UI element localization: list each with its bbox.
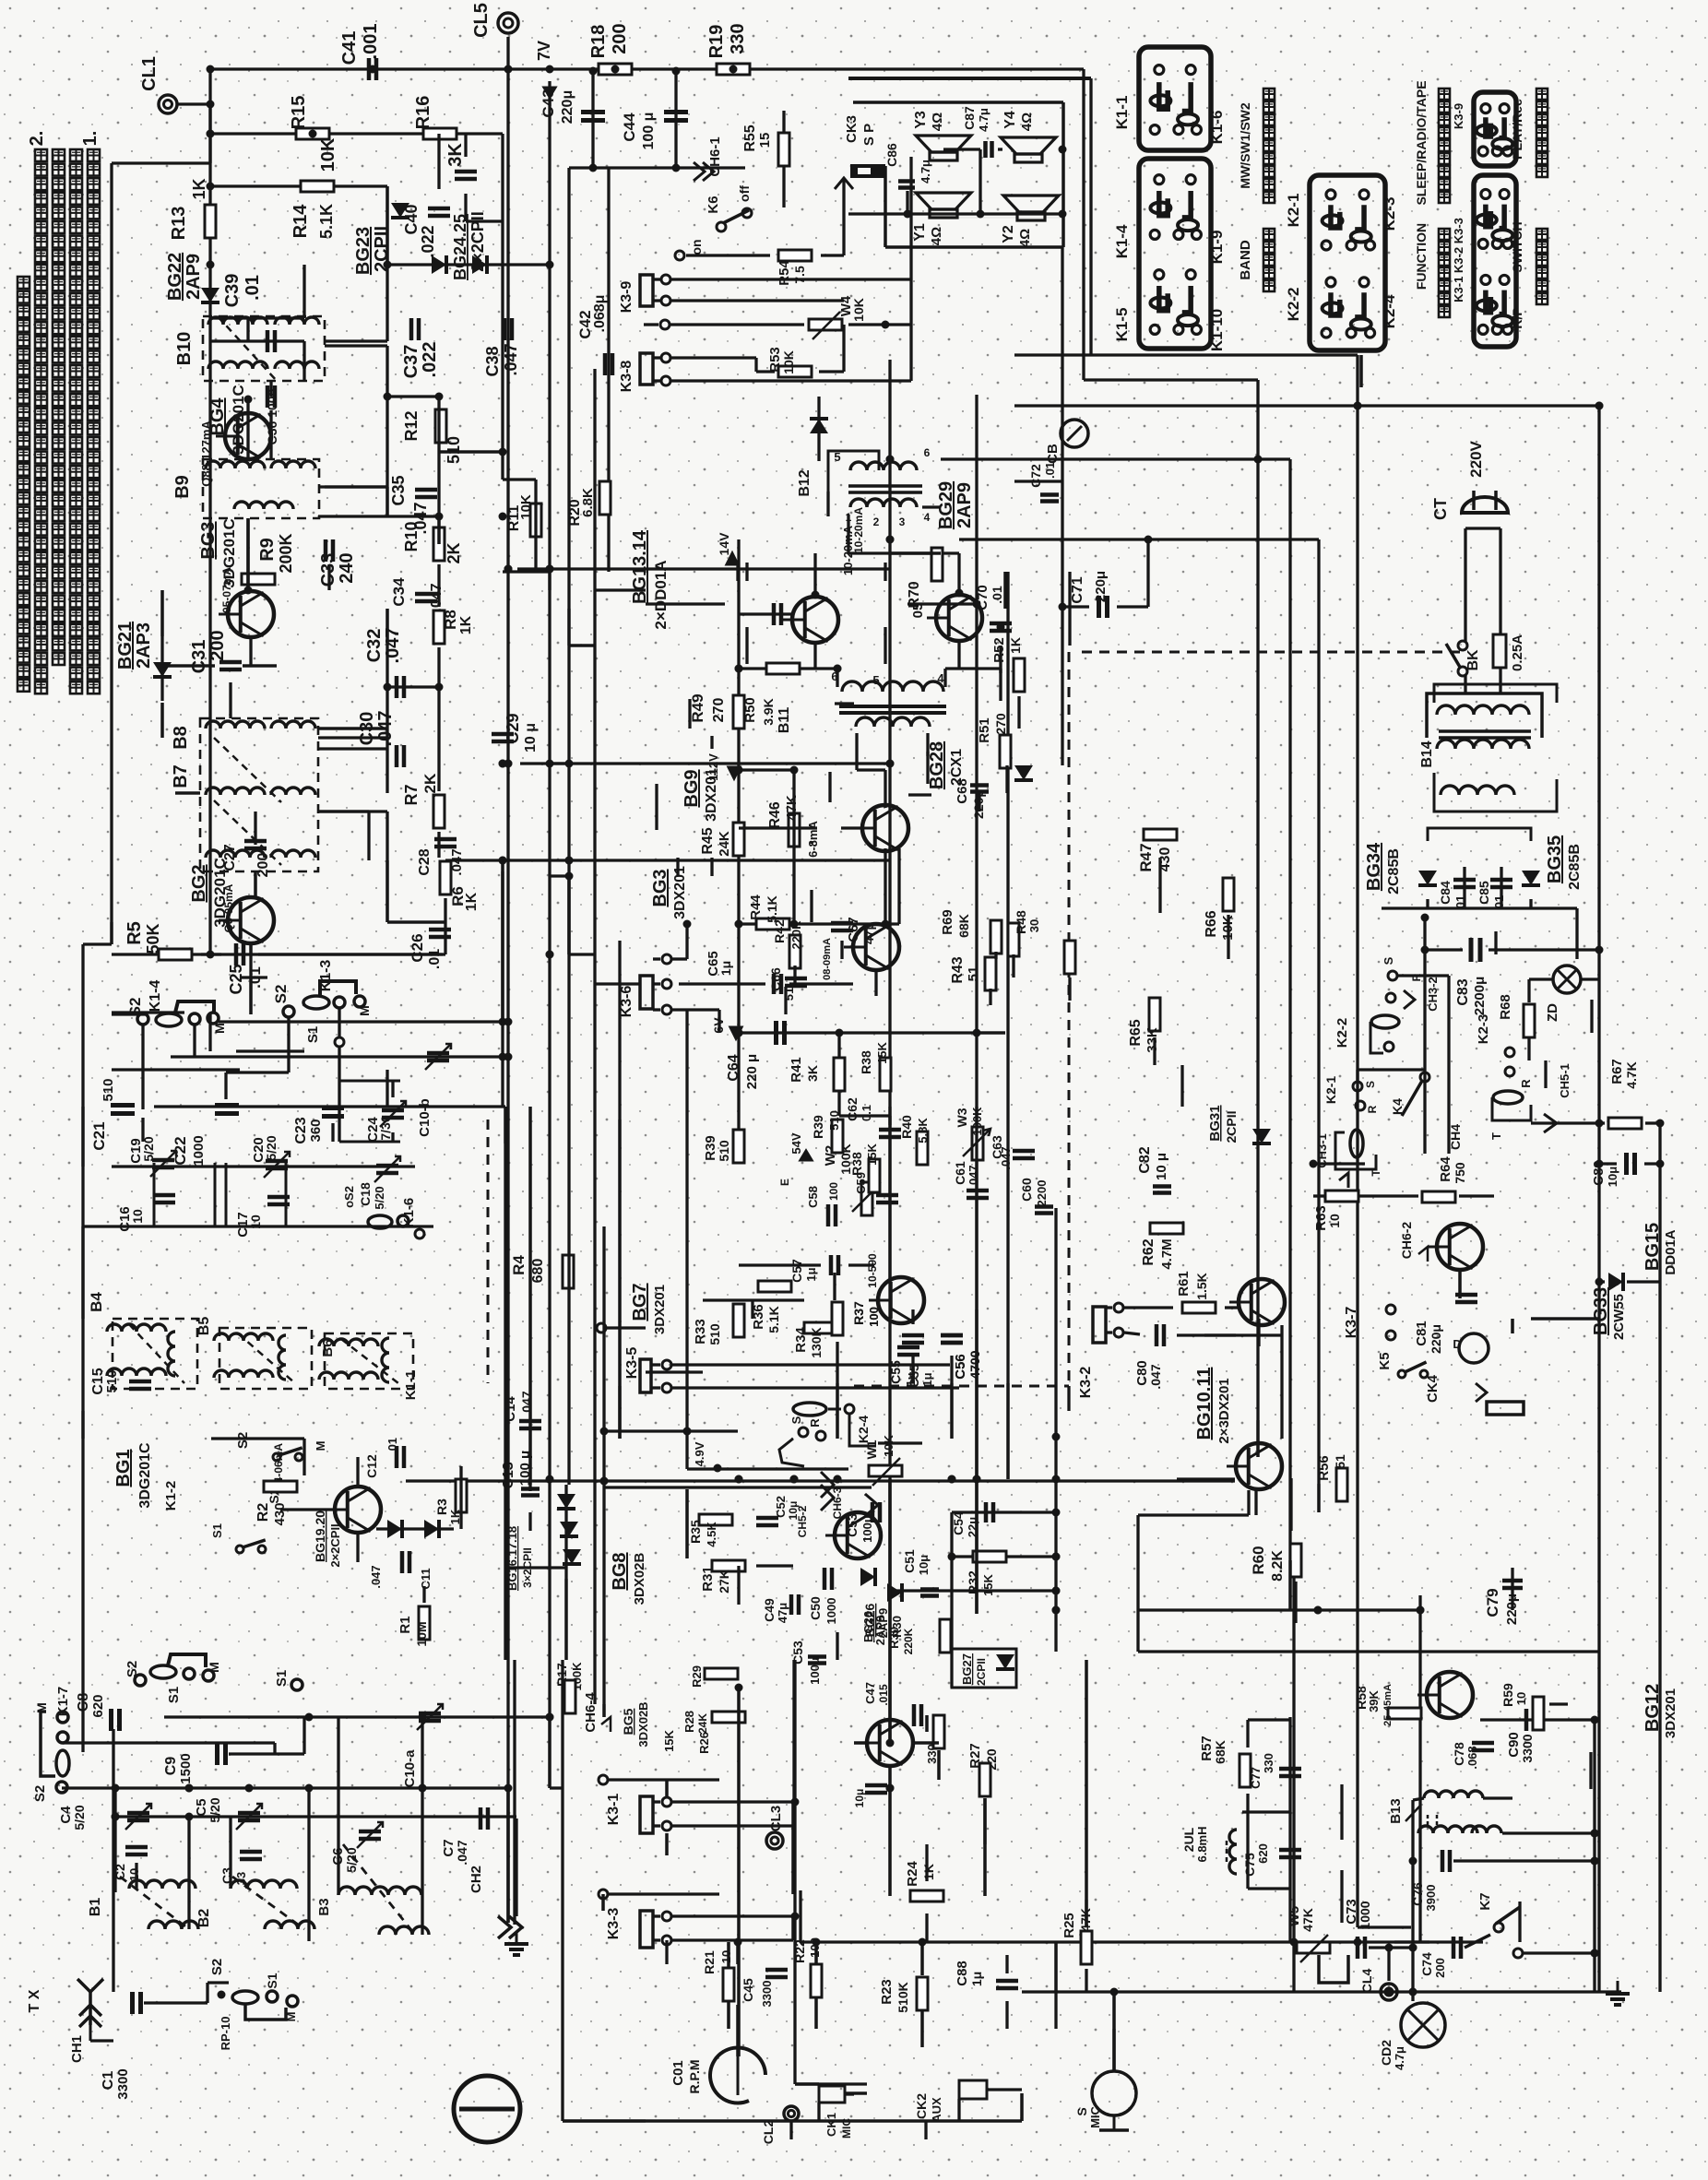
svg-text:14V: 14V <box>717 532 731 556</box>
svg-text:B12: B12 <box>797 469 812 496</box>
svg-text:C64: C64 <box>726 1054 741 1081</box>
svg-text:47K: 47K <box>1300 1908 1315 1932</box>
svg-text:K1-9: K1-9 <box>1208 231 1226 265</box>
svg-text:510: 510 <box>717 1140 731 1162</box>
svg-text:4: 4 <box>924 511 931 524</box>
svg-text:100: 100 <box>867 1307 881 1327</box>
svg-text:5/20: 5/20 <box>72 1805 87 1830</box>
svg-text:R7: R7 <box>402 784 421 805</box>
svg-text:270: 270 <box>711 698 727 723</box>
svg-text:BG24.25: BG24.25 <box>451 214 469 280</box>
svg-text:CB: CB <box>1045 444 1061 464</box>
svg-text:6: 6 <box>924 446 931 459</box>
svg-text:K2-4: K2-4 <box>1381 294 1398 328</box>
svg-text:S2: S2 <box>235 1432 251 1449</box>
svg-text:10K: 10K <box>851 298 866 322</box>
svg-text:47μ: 47μ <box>776 1603 789 1623</box>
svg-text:2AP9: 2AP9 <box>184 254 204 300</box>
svg-text:R23: R23 <box>879 1979 895 2005</box>
svg-text:S: S <box>1074 2107 1089 2115</box>
svg-text:R26: R26 <box>697 1732 711 1754</box>
svg-text:1.5K: 1.5K <box>1194 1273 1209 1300</box>
svg-text:BG22: BG22 <box>165 253 185 301</box>
svg-text:4.9V: 4.9V <box>693 1441 706 1466</box>
svg-text:C77: C77 <box>1249 1767 1263 1789</box>
svg-text:C52: C52 <box>774 1496 788 1518</box>
svg-text:220 μ: 220 μ <box>744 1054 760 1089</box>
svg-text:68K: 68K <box>1213 1740 1228 1764</box>
svg-text:3: 3 <box>899 515 906 528</box>
svg-text:24K: 24K <box>717 831 732 857</box>
svg-text:54V: 54V <box>789 1132 803 1154</box>
svg-text:R34: R34 <box>793 1327 809 1353</box>
svg-text:100 μ: 100 μ <box>641 113 657 150</box>
svg-text:6-8mA: 6-8mA <box>806 821 820 858</box>
svg-text:R69: R69 <box>940 909 955 935</box>
svg-text:K3-7: K3-7 <box>1344 1307 1359 1339</box>
svg-text:CH4: CH4 <box>1448 1124 1463 1150</box>
svg-text:2CW55: 2CW55 <box>1611 1294 1627 1340</box>
svg-text:4.7μ: 4.7μ <box>1393 2046 1406 2070</box>
svg-text:C87: C87 <box>962 106 977 130</box>
svg-text:K2-3: K2-3 <box>1476 1014 1491 1045</box>
svg-text:1500: 1500 <box>178 1753 194 1783</box>
svg-text:BAND: BAND <box>1238 240 1253 279</box>
svg-text:MW/SW1/SW2: MW/SW1/SW2 <box>1238 102 1252 189</box>
svg-text:BG15: BG15 <box>1643 1223 1663 1271</box>
svg-text:1K: 1K <box>190 178 208 199</box>
svg-text:C28: C28 <box>417 848 433 875</box>
svg-text:01: 01 <box>1492 895 1506 908</box>
svg-text:510: 510 <box>101 1078 116 1101</box>
svg-text:CL3: CL3 <box>768 1806 784 1831</box>
svg-text:CH2: CH2 <box>469 1866 484 1893</box>
svg-text:.001: .001 <box>361 24 381 60</box>
svg-text:R38: R38 <box>859 1050 873 1074</box>
svg-text:10 μ: 10 μ <box>1154 1153 1169 1180</box>
svg-text:C01: C01 <box>670 2060 686 2086</box>
svg-text:4.7μ: 4.7μ <box>919 160 932 184</box>
svg-text:R31: R31 <box>700 1566 716 1592</box>
svg-text:R35: R35 <box>688 1520 703 1544</box>
svg-text:25-45mA: 25-45mA <box>1382 1684 1394 1726</box>
svg-text:68K: 68K <box>956 914 971 938</box>
svg-text:.047: .047 <box>1148 1364 1163 1389</box>
svg-text:C8: C8 <box>76 1693 91 1712</box>
svg-text:R14: R14 <box>291 204 311 239</box>
svg-text:47μ: 47μ <box>861 922 876 944</box>
svg-text:R54: R54 <box>777 260 792 286</box>
svg-text:C38: C38 <box>483 346 502 376</box>
svg-text:B2: B2 <box>196 1909 212 1928</box>
svg-text:R62: R62 <box>1141 1238 1156 1265</box>
svg-text:.047: .047 <box>369 1565 383 1588</box>
svg-text:BG28: BG28 <box>927 741 947 789</box>
svg-text:4Ω: 4Ω <box>930 113 945 131</box>
svg-text:6.8K: 6.8K <box>580 488 596 517</box>
svg-text:R29: R29 <box>690 1665 704 1688</box>
svg-text:B14: B14 <box>1419 740 1435 767</box>
svg-text:.01: .01 <box>385 1438 399 1454</box>
svg-text:B9: B9 <box>172 475 193 499</box>
svg-text:C1: C1 <box>101 2071 116 2091</box>
svg-text:2AP9: 2AP9 <box>873 1616 887 1646</box>
svg-text:4.7μ: 4.7μ <box>977 108 990 132</box>
svg-text:50K: 50K <box>144 923 162 954</box>
svg-text:C9: C9 <box>163 1757 179 1776</box>
svg-text:CH6-1: CH6-1 <box>707 136 723 176</box>
svg-text:C82: C82 <box>1137 1146 1153 1173</box>
svg-text:C10-b: C10-b <box>417 1098 433 1137</box>
svg-text:R12: R12 <box>402 410 421 441</box>
svg-text:C22: C22 <box>172 1136 189 1165</box>
svg-text:K3-2: K3-2 <box>1078 1367 1094 1399</box>
svg-text:C60: C60 <box>1019 1178 1034 1202</box>
svg-text:C83: C83 <box>1455 978 1471 1005</box>
svg-text:15: 15 <box>757 133 773 148</box>
svg-text:R51: R51 <box>977 717 992 743</box>
svg-text:C86: C86 <box>884 143 899 167</box>
svg-text:C29: C29 <box>504 713 522 743</box>
svg-text:R18: R18 <box>588 25 609 59</box>
svg-text:51: 51 <box>966 966 981 982</box>
svg-text:S: S <box>1382 956 1395 965</box>
svg-text:oS2: oS2 <box>342 1186 356 1208</box>
svg-text:5.1K: 5.1K <box>765 895 779 923</box>
svg-text:10-20mA: 10-20mA <box>852 507 865 553</box>
svg-text:3DX201: 3DX201 <box>1663 1688 1678 1738</box>
svg-text:05-07mA: 05-07mA <box>220 567 233 613</box>
svg-text:S2: S2 <box>32 1785 48 1802</box>
svg-text:B4: B4 <box>88 1292 105 1312</box>
svg-text:C49: C49 <box>762 1598 777 1622</box>
svg-text:M: M <box>207 1662 221 1673</box>
svg-text:CL2: CL2 <box>761 2120 776 2145</box>
svg-text:K2-1: K2-1 <box>1285 194 1302 228</box>
svg-text:R42: R42 <box>772 919 787 943</box>
svg-text:2: 2 <box>873 515 880 528</box>
svg-text:3300: 3300 <box>760 1981 774 2008</box>
svg-text:C62: C62 <box>845 1097 860 1121</box>
svg-text:K3-5: K3-5 <box>624 1347 640 1380</box>
svg-text:510: 510 <box>827 1110 841 1131</box>
svg-text:R25: R25 <box>1062 1913 1077 1938</box>
svg-text:K3-1: K3-1 <box>606 1794 622 1826</box>
svg-text:BG9: BG9 <box>682 769 702 807</box>
svg-text:10 μ: 10 μ <box>523 723 539 752</box>
svg-text:2200: 2200 <box>1035 1180 1049 1207</box>
svg-text:1K: 1K <box>464 892 480 911</box>
svg-text:K3-9: K3-9 <box>619 281 635 314</box>
svg-text:5/20: 5/20 <box>208 1797 222 1822</box>
svg-text:K1-4: K1-4 <box>1113 224 1131 258</box>
svg-text:3DG201C: 3DG201C <box>137 1442 153 1509</box>
svg-text:K1-10: K1-10 <box>1208 309 1226 351</box>
svg-text:200: 200 <box>610 23 630 53</box>
svg-text:15K: 15K <box>875 1041 889 1063</box>
svg-text:510: 510 <box>445 436 463 464</box>
svg-text:K3-3: K3-3 <box>606 1908 622 1940</box>
svg-text:10μ: 10μ <box>1606 1167 1619 1187</box>
svg-text:47K: 47K <box>784 795 800 821</box>
svg-text:.068μ: .068μ <box>592 295 608 333</box>
svg-text:C10-a: C10-a <box>402 1749 418 1788</box>
svg-text:S P: S P <box>861 124 877 146</box>
svg-text:10: 10 <box>1514 1692 1528 1705</box>
svg-text:C55: C55 <box>888 1360 903 1384</box>
svg-text:K1-5: K1-5 <box>1113 308 1131 342</box>
svg-text:5.1K: 5.1K <box>317 204 336 239</box>
svg-text:C35: C35 <box>389 475 408 505</box>
svg-text:R43: R43 <box>950 956 966 983</box>
svg-text:BG19.20: BG19.20 <box>313 1511 327 1562</box>
svg-text:C14: C14 <box>503 1396 518 1422</box>
svg-text:10M: 10M <box>414 1621 429 1646</box>
svg-text:S1: S1 <box>274 1670 290 1687</box>
svg-text:.2K: .2K <box>421 773 439 798</box>
svg-text:3DG201C: 3DG201C <box>230 385 247 455</box>
svg-text:K3-9: K3-9 <box>1452 103 1465 129</box>
svg-text:S2: S2 <box>209 1959 225 1975</box>
svg-text:200K: 200K <box>277 533 295 573</box>
svg-text:3DX201: 3DX201 <box>704 768 719 822</box>
svg-text:B5: B5 <box>196 1317 212 1336</box>
svg-text:B3: B3 <box>316 1898 332 1915</box>
svg-text:BG10.11: BG10.11 <box>1194 1368 1215 1440</box>
svg-text:.047: .047 <box>502 343 520 375</box>
svg-text:R16: R16 <box>413 96 433 130</box>
svg-text:5.1K: 5.1K <box>766 1306 781 1333</box>
svg-text:on: on <box>689 239 704 255</box>
svg-text:Q3-05mA: Q3-05mA <box>222 883 235 932</box>
svg-text:K5: K5 <box>1377 1352 1393 1369</box>
svg-text:S1: S1 <box>210 1523 224 1538</box>
svg-text:10K: 10K <box>318 137 338 172</box>
svg-text:B6: B6 <box>320 1339 336 1357</box>
svg-text:R21: R21 <box>702 1950 717 1974</box>
svg-text:30: 30 <box>1027 919 1041 932</box>
svg-text:.047: .047 <box>967 1165 980 1188</box>
svg-text:5.8K: 5.8K <box>916 1118 930 1143</box>
svg-text:S1: S1 <box>305 1026 321 1043</box>
svg-text:15K: 15K <box>865 1143 879 1165</box>
svg-text:R66: R66 <box>1204 910 1219 937</box>
svg-text:.068: .068 <box>1465 1746 1479 1769</box>
svg-text:750: 750 <box>1453 1162 1467 1184</box>
svg-text:1000: 1000 <box>1358 1901 1372 1929</box>
svg-text:BG13.14: BG13.14 <box>630 529 650 604</box>
svg-text:R61: R61 <box>1176 1271 1192 1297</box>
svg-text:K1-4: K1-4 <box>148 980 163 1013</box>
svg-text:AUX: AUX <box>930 2097 943 2123</box>
svg-text:CH6-2: CH6-2 <box>1399 1222 1414 1260</box>
svg-text:B11: B11 <box>777 707 792 734</box>
svg-text:R9: R9 <box>257 538 278 562</box>
svg-text:R: R <box>1366 1105 1379 1113</box>
svg-text:BG8: BG8 <box>610 1552 630 1590</box>
svg-text:39K: 39K <box>1367 1689 1381 1712</box>
svg-text:S2: S2 <box>272 985 290 1004</box>
svg-text:C43: C43 <box>540 89 557 117</box>
svg-text:BG3: BG3 <box>198 521 219 559</box>
svg-text:R37: R37 <box>851 1301 866 1325</box>
svg-text:K1-6: K1-6 <box>1208 111 1226 145</box>
svg-text:3DX201: 3DX201 <box>672 866 688 919</box>
svg-text:4.7K: 4.7K <box>1624 1061 1639 1089</box>
svg-text:ZD: ZD <box>1545 1003 1560 1022</box>
svg-text:C23: C23 <box>293 1117 309 1143</box>
svg-text:R8: R8 <box>442 610 459 630</box>
svg-text:C61: C61 <box>953 1161 967 1185</box>
svg-text:K2-4: K2-4 <box>856 1416 871 1444</box>
svg-text:240: 240 <box>337 552 357 583</box>
svg-text:200: 200 <box>1433 1958 1447 1978</box>
svg-text:510K: 510K <box>896 1982 910 2012</box>
svg-text:1μ: 1μ <box>969 1972 984 1986</box>
svg-text:D: D <box>1453 1337 1461 1351</box>
svg-text:100μ: 100μ <box>808 1657 822 1685</box>
svg-text:10: 10 <box>719 1950 733 1963</box>
svg-text:1μ: 1μ <box>804 1267 818 1281</box>
svg-text:CK4: CK4 <box>1425 1374 1441 1403</box>
svg-text:K6: K6 <box>706 195 721 213</box>
svg-text:C26: C26 <box>409 933 426 962</box>
svg-text:BK: BK <box>1465 649 1481 671</box>
svg-text:K2-3: K2-3 <box>1381 197 1398 231</box>
svg-text:E: E <box>778 1179 791 1186</box>
svg-text:R: R <box>808 1418 822 1428</box>
svg-text:2CPII: 2CPII <box>1224 1110 1239 1143</box>
svg-text:10μ: 10μ <box>917 1555 931 1575</box>
svg-text:C79: C79 <box>1484 1588 1501 1617</box>
svg-text:T: T <box>1489 1132 1503 1140</box>
svg-text:C75: C75 <box>1242 1853 1257 1877</box>
svg-text:.047: .047 <box>383 628 403 664</box>
svg-text:B10: B10 <box>174 332 195 366</box>
svg-text:2×2CPII: 2×2CPII <box>328 1523 342 1567</box>
svg-text:C32: C32 <box>364 629 385 663</box>
svg-text:510: 510 <box>104 1369 120 1392</box>
svg-text:R64: R64 <box>1438 1156 1453 1182</box>
svg-text:R44: R44 <box>748 895 764 920</box>
svg-text:4.7M: 4.7M <box>1159 1238 1175 1269</box>
svg-text:off: off <box>737 185 752 202</box>
svg-text:1K: 1K <box>1008 637 1023 654</box>
svg-text:BG21: BG21 <box>115 622 136 669</box>
svg-text:B13: B13 <box>1388 1798 1404 1824</box>
svg-text:FUNCTION: FUNCTION <box>1414 223 1429 290</box>
svg-text:2K: 2K <box>445 542 463 563</box>
svg-text:5: 5 <box>872 673 879 687</box>
svg-text:360: 360 <box>308 1119 324 1142</box>
svg-text:CL1: CL1 <box>139 56 160 91</box>
svg-text:CK3: CK3 <box>844 115 860 143</box>
svg-text:15K: 15K <box>662 1729 676 1751</box>
svg-text:S1: S1 <box>265 1973 279 1988</box>
svg-text:08-09mA: 08-09mA <box>822 938 833 980</box>
svg-text:Y3: Y3 <box>913 111 929 129</box>
svg-text:3K: 3K <box>445 143 466 167</box>
svg-text:BG31: BG31 <box>1207 1105 1223 1141</box>
svg-text:270: 270 <box>993 713 1008 735</box>
svg-text:R33: R33 <box>693 1319 708 1345</box>
svg-text:220μ: 220μ <box>1429 1324 1443 1354</box>
svg-text:330: 330 <box>1262 1753 1275 1773</box>
svg-text:4Ω: 4Ω <box>1019 113 1035 131</box>
svg-text:R67: R67 <box>1609 1059 1625 1084</box>
svg-text:2UL: 2UL <box>1181 1827 1196 1852</box>
svg-text:C41: C41 <box>339 31 360 65</box>
svg-text:6V: 6V <box>711 1017 726 1034</box>
svg-text:10: 10 <box>1327 1214 1342 1228</box>
svg-text:K7: K7 <box>1477 1892 1493 1910</box>
svg-text:W3: W3 <box>955 1108 969 1127</box>
svg-text:2200μ: 2200μ <box>1472 977 1488 1016</box>
svg-text:R3: R3 <box>434 1499 449 1515</box>
svg-text:1000: 1000 <box>824 1598 838 1625</box>
svg-text:R.P.M: R.P.M <box>687 2059 702 2093</box>
svg-text:27K: 27K <box>717 1570 731 1594</box>
svg-text:C45: C45 <box>741 1978 755 2002</box>
svg-text:C85: C85 <box>1477 881 1491 905</box>
svg-text:BG1: BG1 <box>113 1449 134 1487</box>
svg-text:3900: 3900 <box>1424 1885 1438 1912</box>
svg-text:C84: C84 <box>1438 881 1453 905</box>
svg-text:C18: C18 <box>358 1182 373 1206</box>
svg-text:T: T <box>1370 1169 1382 1177</box>
svg-text:R24: R24 <box>905 1861 920 1887</box>
svg-text:C12: C12 <box>364 1454 379 1478</box>
svg-text:C34: C34 <box>390 577 408 607</box>
svg-text:C81: C81 <box>1414 1321 1429 1346</box>
svg-text:C56: C56 <box>953 1354 968 1380</box>
svg-text:620: 620 <box>90 1694 106 1717</box>
svg-text:K3-8: K3-8 <box>619 361 635 393</box>
svg-text:C39: C39 <box>222 274 243 308</box>
svg-text:R4: R4 <box>510 1255 528 1275</box>
svg-text:2AP9: 2AP9 <box>955 482 975 528</box>
svg-text:BG35: BG35 <box>1545 835 1565 883</box>
svg-text:R68: R68 <box>1498 994 1513 1020</box>
svg-text:C71: C71 <box>1070 576 1085 603</box>
svg-text:C74: C74 <box>1419 1952 1434 1976</box>
svg-text:MIC: MIC <box>1088 2105 1102 2127</box>
svg-text:Y2: Y2 <box>1001 225 1016 243</box>
svg-text:R41: R41 <box>789 1057 804 1083</box>
svg-text:CT: CT <box>1431 498 1450 520</box>
svg-text:C58: C58 <box>806 1186 820 1208</box>
svg-text:10-590: 10-590 <box>866 1253 879 1288</box>
svg-text:C13: C13 <box>501 1462 516 1488</box>
svg-text:.047: .047 <box>429 583 445 611</box>
svg-text:R38: R38 <box>849 1152 864 1176</box>
svg-text:4Ω: 4Ω <box>929 227 944 245</box>
svg-text:K3-1 K3-2 K3-3: K3-1 K3-2 K3-3 <box>1452 218 1465 302</box>
svg-text:CL5: CL5 <box>471 3 492 38</box>
svg-text:DD01A: DD01A <box>1663 1229 1678 1274</box>
svg-text:R39: R39 <box>811 1115 825 1139</box>
svg-text:.01: .01 <box>243 275 263 301</box>
svg-text:100: 100 <box>827 1182 840 1201</box>
svg-text:C44: C44 <box>621 113 638 142</box>
svg-text:1K: 1K <box>921 1864 936 1880</box>
svg-text:CH6-3: CH6-3 <box>831 1487 844 1519</box>
svg-text:R19: R19 <box>706 25 727 59</box>
svg-text:130K: 130K <box>809 1327 824 1357</box>
svg-text:PLAY/Rec: PLAY/Rec <box>1510 99 1524 160</box>
svg-text:R15: R15 <box>289 96 309 130</box>
svg-text:2AP3: 2AP3 <box>134 622 154 669</box>
